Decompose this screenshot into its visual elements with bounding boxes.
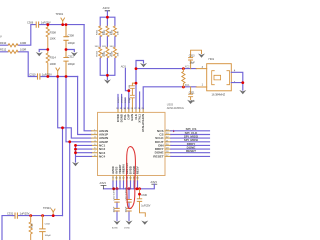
capacitor C331 xyxy=(15,213,17,218)
svg-text:1uF/25V: 1uF/25V xyxy=(41,20,51,24)
svg-text:1uF/25V: 1uF/25V xyxy=(141,204,150,207)
IC left pin stubs xyxy=(92,131,98,157)
svg-text:100pF: 100pF xyxy=(68,41,76,45)
crystal right pins to ground xyxy=(231,72,243,90)
svg-text:DGND: DGND xyxy=(124,228,130,230)
svg-text:100nF: 100nF xyxy=(114,206,116,213)
junction dots bottom rail xyxy=(112,187,115,190)
resistor R308 chain upper xyxy=(46,25,49,50)
pin t7 stub xyxy=(139,92,141,110)
wire AIN4 from C chain junction to pin4 xyxy=(66,77,92,142)
capacitor C332 xyxy=(40,216,46,240)
svg-text:R301: R301 xyxy=(97,29,99,35)
svg-text:AD3: AD3 xyxy=(121,64,127,68)
svg-text:R312: R312 xyxy=(0,47,7,51)
svg-text:100R: 100R xyxy=(50,62,56,66)
junction dot network bottom xyxy=(106,74,109,77)
capacitor C326 column1 lower xyxy=(116,211,118,221)
svg-text:Y301: Y301 xyxy=(208,57,215,61)
IC right pin numbers xyxy=(166,129,169,157)
ground xyxy=(71,52,78,56)
svg-text:XC2: XC2 xyxy=(185,66,190,69)
ground xyxy=(36,52,43,56)
svg-text:U303: U303 xyxy=(167,103,174,107)
junction dot AD3 line xyxy=(127,89,130,92)
svg-text:XTAL2/CLKIN: XTAL2/CLKIN xyxy=(141,114,145,132)
ground column1 xyxy=(114,221,121,225)
resistor R305 xyxy=(106,47,109,59)
resistor R304 xyxy=(99,47,102,59)
red probe marker pin 24 xyxy=(173,130,175,132)
svg-text:C321: C321 xyxy=(189,91,195,94)
capacitor C308 chain upper xyxy=(64,25,68,50)
svg-text:C308: C308 xyxy=(68,33,75,37)
capacitor C322 column1 upper xyxy=(116,189,118,209)
ground C321 xyxy=(187,100,194,104)
capacitor C320 lower column xyxy=(131,93,135,110)
ground top of t6 xyxy=(140,63,147,67)
crystal inner symbol xyxy=(212,71,230,85)
test point TP302 xyxy=(56,68,60,77)
svg-text:100R: 100R xyxy=(20,41,26,45)
ground column2 xyxy=(126,221,133,225)
svg-text:AGND: AGND xyxy=(112,227,118,230)
svg-text:100pF: 100pF xyxy=(129,96,131,103)
svg-text:100nF: 100nF xyxy=(126,206,128,213)
wires pins to net labels xyxy=(171,131,210,157)
junction dot network top xyxy=(106,16,109,19)
svg-text:100pF: 100pF xyxy=(68,62,76,66)
wire network top rail xyxy=(100,17,115,26)
svg-text:100R: 100R xyxy=(20,47,26,51)
wire top net y=24.6 xyxy=(39,24,84,26)
IC bottom pin numbers xyxy=(112,178,139,180)
wire to ground from C junction xyxy=(66,50,74,52)
net labels SPI xyxy=(184,127,199,153)
capacitor C321 xyxy=(189,87,193,100)
svg-text:D3V3: D3V3 xyxy=(118,97,120,103)
wire network bottom rail xyxy=(100,59,115,80)
wires bottom pins to rail xyxy=(113,181,138,189)
junction dots xtal lines xyxy=(135,67,138,70)
red annotation loop xyxy=(127,147,136,209)
resistor R310 xyxy=(8,44,18,47)
wire AIN3 S-bend to pin3 xyxy=(58,77,92,139)
wire AIN1 from top net to pin1 xyxy=(84,25,91,131)
svg-text:R308: R308 xyxy=(50,31,57,35)
IC left pin numbers xyxy=(94,129,96,157)
IC top pin names rotated xyxy=(116,114,145,132)
capacitor C313 xyxy=(189,50,202,68)
svg-text:R314: R314 xyxy=(50,56,57,60)
svg-text:100K: 100K xyxy=(50,37,56,41)
resistor R317 xyxy=(29,216,32,240)
svg-text:TP304: TP304 xyxy=(43,206,51,210)
svg-text:DGND: DGND xyxy=(122,96,124,103)
svg-text:RESET: RESET xyxy=(153,154,163,158)
resistor R314 chain lower xyxy=(46,50,49,77)
svg-text:C310: C310 xyxy=(29,72,36,76)
svg-text:V: V xyxy=(0,35,2,39)
junction dots crystal xyxy=(182,67,185,70)
capacitor C330 column3 xyxy=(137,189,145,216)
resistor R306 xyxy=(113,47,116,59)
IC top pin stubs xyxy=(118,110,143,113)
wire network mid segments xyxy=(100,37,115,47)
svg-text:C330: C330 xyxy=(141,194,147,197)
ground crystal xyxy=(239,90,246,94)
svg-text:R306: R306 xyxy=(111,50,113,56)
capacitor C310 xyxy=(38,74,40,79)
svg-text:R317: R317 xyxy=(31,222,33,228)
IC left pin names xyxy=(99,129,109,159)
IC U303 body xyxy=(98,112,166,175)
junction dot crystal right xyxy=(241,81,244,84)
svg-text:10K: 10K xyxy=(117,31,119,35)
svg-text:16.384MHZ: 16.384MHZ xyxy=(212,92,226,96)
IC right pin names xyxy=(153,129,164,159)
svg-text:R305: R305 xyxy=(104,50,106,56)
ground NC bus xyxy=(72,162,79,166)
svg-text:TP301: TP301 xyxy=(56,12,64,16)
svg-text:C312: C312 xyxy=(68,54,75,58)
wire crystal upper XC2 xyxy=(136,68,196,70)
junction dots bottom-left xyxy=(29,214,32,217)
capacitor C318 top column xyxy=(131,83,137,93)
resistor R312 xyxy=(8,50,18,53)
svg-text:C318: C318 xyxy=(129,84,131,90)
svg-text:A3V3: A3V3 xyxy=(100,181,107,185)
capacitor C312 chain lower xyxy=(64,50,68,77)
svg-text:R304: R304 xyxy=(97,50,99,56)
svg-text:XC1: XC1 xyxy=(185,84,190,87)
svg-text:1uF/25V: 1uF/25V xyxy=(20,211,30,215)
svg-text:100pF: 100pF xyxy=(45,235,52,237)
wire long vertical off canvas bottom xyxy=(69,142,71,240)
ground network xyxy=(104,79,111,83)
NC bus to ground xyxy=(76,145,92,162)
svg-text:R303: R303 xyxy=(111,29,113,35)
wire crystal lower XC1 from pin t8 xyxy=(143,87,196,110)
resistor R303 xyxy=(113,26,116,37)
bottom-left block wire xyxy=(13,215,63,217)
svg-text:ADS1218IPAG: ADS1218IPAG xyxy=(167,106,184,110)
top pin stubs t1-t3 with rotated labels xyxy=(118,95,125,110)
svg-text:D3V3: D3V3 xyxy=(125,97,127,103)
IC top pin numbers xyxy=(116,108,144,110)
resistor R316 crystal feedback xyxy=(182,69,185,87)
svg-text:RESET: RESET xyxy=(186,149,196,153)
svg-text:18pF: 18pF xyxy=(189,62,195,65)
junction dot C330 column xyxy=(138,193,141,196)
ground C313 xyxy=(198,54,205,58)
capacitor C324 column2 upper xyxy=(128,189,130,209)
wire long vertical to bottom-left block xyxy=(62,128,64,216)
wire bottom rail xyxy=(104,188,140,190)
resistor R301 xyxy=(99,26,102,37)
wire AIN2 from bottom net to pin2 xyxy=(78,77,92,135)
svg-text:10K: 10K xyxy=(117,52,119,56)
IC bottom pin stubs xyxy=(113,176,138,182)
svg-text:A3V3: A3V3 xyxy=(103,6,110,10)
svg-text:A3V3: A3V3 xyxy=(151,180,158,184)
svg-text:R310: R310 xyxy=(0,41,7,45)
wire left rail down from R312 xyxy=(0,52,37,77)
wire to ground from R junction xyxy=(39,50,48,52)
svg-text:C306: C306 xyxy=(27,20,34,24)
svg-text:R302: R302 xyxy=(104,29,106,35)
wire bottom net y=76.5 xyxy=(40,76,77,78)
junction dots left block xyxy=(46,23,67,78)
svg-text:C322 1uF/25V: C322 1uF/25V xyxy=(114,186,116,200)
wire left rail up from R310 xyxy=(0,25,36,46)
crystal pins 3 and 1 stubs xyxy=(196,69,207,87)
svg-text:C313: C313 xyxy=(189,55,195,58)
IC bottom pin names rotated xyxy=(111,162,140,174)
svg-text:C331: C331 xyxy=(7,211,14,215)
capacitor C328 column2 lower xyxy=(128,211,130,221)
svg-text:C332: C332 xyxy=(45,223,51,225)
IC right pin stubs xyxy=(165,131,171,157)
svg-text:NC4: NC4 xyxy=(99,155,105,159)
junction dot AIN tap A xyxy=(61,126,64,129)
junction dot AIN tap B xyxy=(68,140,71,143)
wire AD3 to pin t4 xyxy=(125,68,128,109)
resistor R302 xyxy=(106,26,109,37)
ground column3 xyxy=(141,221,148,225)
wire XTAL2 line from pin t6 xyxy=(136,61,144,110)
capacitor C306 xyxy=(36,22,38,27)
